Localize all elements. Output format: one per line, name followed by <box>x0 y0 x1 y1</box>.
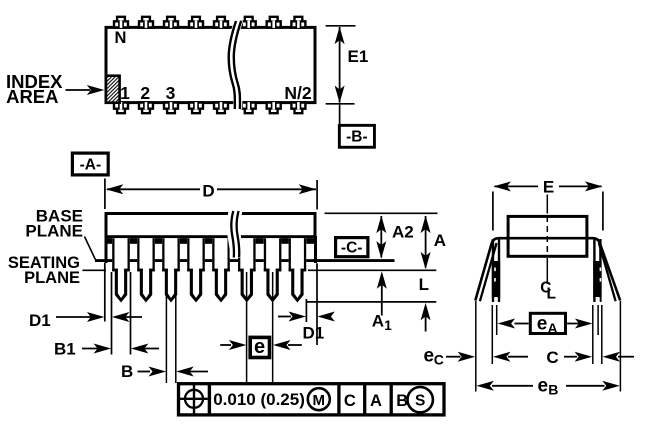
side break erase band <box>227 211 244 258</box>
C left outside arrow <box>493 352 511 362</box>
B dimension arrows <box>138 371 151 373</box>
right outer outside arrow <box>603 352 621 362</box>
svg-text:L: L <box>419 275 429 294</box>
L lower arrow <box>425 306 427 332</box>
side body left edge extension <box>105 236 108 263</box>
frame divider 1 <box>208 384 211 415</box>
svg-text:A: A <box>434 231 446 250</box>
svg-text:C: C <box>344 392 356 410</box>
eB dimension <box>476 381 494 391</box>
svg-text:A: A <box>370 392 382 410</box>
top view break erase band <box>227 21 243 110</box>
body standoff marks between leads <box>108 238 113 244</box>
svg-text:S: S <box>415 393 425 410</box>
D1 right extension line b <box>316 263 318 345</box>
D1 left dimension arrows <box>56 316 94 318</box>
side break line left <box>231 211 234 258</box>
svg-text:N: N <box>115 29 127 47</box>
side view lead 5 <box>212 238 230 271</box>
svg-text:2: 2 <box>140 83 150 103</box>
body top extension line <box>325 212 438 214</box>
top view pin tab 2 (top edge) <box>139 17 153 28</box>
E right extension line <box>602 192 604 231</box>
right flare inner line <box>599 243 616 301</box>
top view pin tab 15 (bottom edge) <box>267 103 281 114</box>
left flare inner line <box>480 243 497 301</box>
D1 left extension line a <box>104 263 106 322</box>
D1 right dimension arrows <box>278 316 291 318</box>
right lead right stub <box>601 305 603 364</box>
svg-text:D: D <box>202 182 214 201</box>
side view lead 4 <box>187 238 205 271</box>
svg-text:B1: B1 <box>54 340 76 359</box>
svg-text:1: 1 <box>384 318 392 333</box>
side view lead 2 <box>137 238 155 271</box>
end view package body <box>508 216 587 256</box>
D left extension line <box>104 179 106 210</box>
top view pin tab 7 (top edge) <box>267 17 281 28</box>
side view lead 1 <box>112 238 130 271</box>
eA dimension arrows <box>515 323 529 325</box>
eB left extension line <box>475 301 477 392</box>
svg-text:C: C <box>546 348 558 367</box>
D1 right extension line a <box>305 299 307 322</box>
lead tip line <box>306 301 436 303</box>
left lead center stub <box>496 305 498 335</box>
frame divider 2 <box>337 384 340 415</box>
svg-text:PLANE: PLANE <box>24 269 80 287</box>
A2 dimension <box>380 216 382 258</box>
top view pin tab 16 (bottom edge) <box>291 103 305 114</box>
D right extension line <box>316 180 318 210</box>
side view lead 8 <box>289 238 307 271</box>
E1 bottom extension line <box>326 103 355 105</box>
frame divider 3 <box>363 384 366 415</box>
e dimension arrows <box>220 344 231 346</box>
top view break line left <box>229 21 236 109</box>
top view pin tab 6 (top edge) <box>242 17 256 28</box>
side view body <box>106 214 315 237</box>
side view lead 6 <box>238 238 256 271</box>
top view pin tab 10 (bottom edge) <box>139 103 153 114</box>
E1 top extension line <box>326 25 356 27</box>
E dimension line <box>495 185 539 187</box>
top view pin tab 9 (bottom edge) <box>114 103 128 114</box>
top view pin tab 3 (top edge) <box>164 17 178 28</box>
datum box -C- <box>336 238 368 257</box>
svg-text:C: C <box>434 352 444 368</box>
D1/B1 extension line b <box>111 272 113 355</box>
top view pin tab 5 (top edge) <box>214 17 228 28</box>
svg-text:e: e <box>424 346 435 367</box>
B1 dimension arrows <box>82 348 100 350</box>
top view pin tab 1 (top edge) <box>114 17 128 28</box>
A1 arrow <box>381 274 383 316</box>
index area hatched square <box>106 76 120 103</box>
right lead center stub <box>597 305 599 335</box>
index area arrow <box>66 89 91 91</box>
svg-text:e: e <box>537 314 548 335</box>
svg-text:0.010 (0.25): 0.010 (0.25) <box>213 390 305 409</box>
B1 extension line <box>130 272 132 355</box>
S modifier circle <box>408 387 433 412</box>
side view lead 7 <box>264 238 282 271</box>
E1 dimension line with arrows <box>339 27 341 103</box>
E left extension line <box>492 192 494 231</box>
svg-text:A: A <box>372 312 384 331</box>
svg-text:PLANE: PLANE <box>25 222 83 241</box>
side body right edge extension <box>314 236 317 263</box>
svg-text:e: e <box>538 376 549 397</box>
feature control frame box <box>179 384 445 415</box>
svg-text:M: M <box>313 392 326 409</box>
vertical centerline <box>546 195 548 214</box>
svg-text:B: B <box>548 382 558 398</box>
C right arrow <box>564 356 577 358</box>
A dimension <box>425 216 427 268</box>
frame divider 4 <box>390 384 393 415</box>
top view break line right <box>234 21 241 109</box>
svg-text:E1: E1 <box>348 47 369 66</box>
svg-text:B: B <box>121 362 133 381</box>
top view pin tab 4 (top edge) <box>189 17 203 28</box>
e boxed label <box>250 337 269 357</box>
datum box -B- <box>339 125 374 147</box>
base plane leader <box>85 237 96 260</box>
svg-text:D1: D1 <box>29 311 51 330</box>
top view pin tab 11 (bottom edge) <box>164 103 178 114</box>
side break line right <box>237 211 240 258</box>
base plane line <box>95 259 395 262</box>
datum -B- connector <box>339 104 341 125</box>
top view pin tab 8 (top edge) <box>291 17 305 28</box>
end view leads yoke and flares <box>475 238 620 300</box>
right vertical lead <box>593 239 595 302</box>
left vertical lead <box>492 239 494 302</box>
eC arrow <box>446 356 461 358</box>
seating plane tick <box>83 269 107 271</box>
svg-text:A2: A2 <box>392 223 414 242</box>
eA boxed label <box>530 313 565 333</box>
datum box -A- <box>72 153 108 175</box>
side view lead 3 <box>162 238 180 271</box>
position tolerance symbol <box>185 390 203 408</box>
svg-text:-B-: -B- <box>346 129 368 146</box>
svg-text:AREA: AREA <box>6 86 58 107</box>
svg-text:-A-: -A- <box>80 157 102 174</box>
eB right extension line <box>619 301 621 392</box>
top view pin tab 14 (bottom edge) <box>242 103 256 114</box>
right lead left stub <box>592 305 594 364</box>
svg-text:3: 3 <box>166 83 176 103</box>
seating plane line <box>308 269 436 271</box>
svg-text:A: A <box>548 320 558 336</box>
svg-text:e: e <box>254 336 265 358</box>
svg-text:1: 1 <box>120 83 130 103</box>
svg-text:E: E <box>543 178 554 197</box>
svg-text:L: L <box>547 286 556 303</box>
e extension lines <box>246 272 248 382</box>
svg-text:-C-: -C- <box>341 239 363 256</box>
svg-text:N/2: N/2 <box>284 83 312 103</box>
M modifier circle <box>308 388 330 410</box>
D dimension line <box>107 188 200 190</box>
B extension lines <box>165 272 167 383</box>
top view pin tab 13 (bottom edge) <box>214 103 228 114</box>
top view pin tab 12 (bottom edge) <box>189 103 203 114</box>
svg-text:D1: D1 <box>303 324 325 343</box>
left lead edge stub <box>491 305 493 364</box>
top view package body <box>106 27 315 102</box>
